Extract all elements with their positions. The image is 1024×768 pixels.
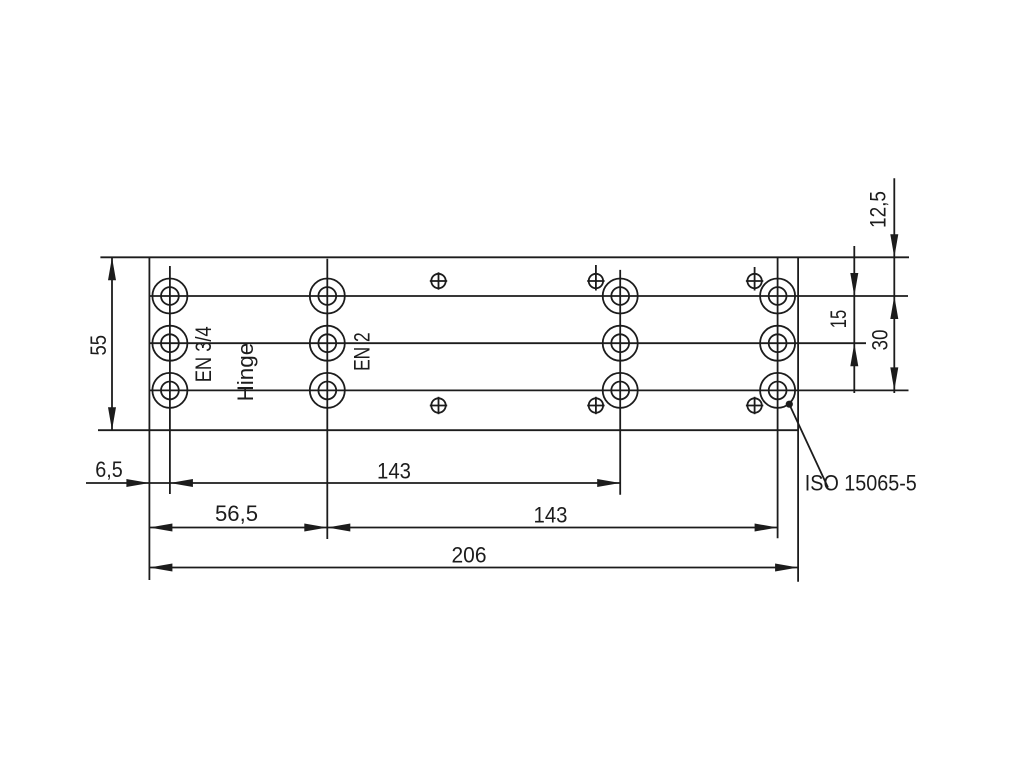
arrow 55 top xyxy=(108,257,116,280)
svg-text:EN 2: EN 2 xyxy=(350,332,375,371)
hole col1 row2 xyxy=(152,326,187,361)
arrow 206 left xyxy=(149,564,172,572)
row 3 centerline xyxy=(149,389,908,391)
leader dot xyxy=(786,401,793,408)
arrow 56,5 right xyxy=(304,524,327,532)
svg-text:30: 30 xyxy=(868,330,893,351)
arrow 30 bottom xyxy=(890,367,898,390)
dimension line 12,5 and 30 xyxy=(893,178,895,393)
svg-text:143: 143 xyxy=(377,459,411,484)
row 2 centerline xyxy=(149,342,866,344)
arrow 6,5 left xyxy=(126,479,149,487)
hole col4 row1 xyxy=(760,279,795,314)
small hole bottom 3 xyxy=(746,397,763,414)
svg-text:6,5: 6,5 xyxy=(95,457,123,482)
row 1 centerline xyxy=(149,295,908,297)
dimension line 6,5 and 143 xyxy=(86,482,620,484)
small hole top 1 xyxy=(430,272,447,289)
hole col4 row2 xyxy=(760,326,795,361)
arrow 55 bottom xyxy=(108,407,116,430)
hole col3 row2 xyxy=(603,326,638,361)
hole col2 row2 xyxy=(310,326,345,361)
arrow 206 right xyxy=(775,564,798,572)
svg-text:ISO 15065-5: ISO 15065-5 xyxy=(805,470,917,495)
hole col2 row3 xyxy=(310,373,345,408)
small hole top 3 xyxy=(746,267,763,291)
hole col2 row1 xyxy=(310,279,345,314)
arrow 143a left xyxy=(170,479,193,487)
arrow 15 top xyxy=(850,273,858,296)
hole col1 row3 xyxy=(152,373,187,408)
dimension line 15 xyxy=(853,246,855,393)
dimension line 206 xyxy=(149,567,798,569)
svg-text:15: 15 xyxy=(826,310,851,329)
plate right edge xyxy=(797,257,799,581)
column 4 centerline xyxy=(777,257,779,538)
dimension line 55 xyxy=(111,257,113,430)
arrow 56,5 left xyxy=(149,524,172,532)
small hole bottom 1 xyxy=(430,397,447,414)
svg-text:56,5: 56,5 xyxy=(215,501,258,526)
leader line ISO xyxy=(789,404,828,487)
hole col3 row3 xyxy=(603,373,638,408)
svg-text:143: 143 xyxy=(534,503,568,528)
arrow 143a right xyxy=(597,479,620,487)
small hole top 2 xyxy=(587,265,604,291)
plate left edge xyxy=(148,257,150,580)
column 1 centerline xyxy=(169,266,171,494)
column 3 centerline xyxy=(619,270,621,495)
arrow 15 bottom xyxy=(850,343,858,366)
small hole bottom 2 xyxy=(587,397,604,414)
svg-text:55: 55 xyxy=(86,335,111,356)
hole col1 row1 xyxy=(152,279,187,314)
svg-text:Hinge: Hinge xyxy=(233,343,258,402)
hole col4 row3 xyxy=(760,373,795,408)
svg-text:12,5: 12,5 xyxy=(866,191,891,228)
svg-text:206: 206 xyxy=(452,543,487,568)
arrow 12,5 bottom xyxy=(890,234,898,257)
svg-text:EN 3/4: EN 3/4 xyxy=(191,326,216,382)
dimension line 56,5 and 143 xyxy=(149,527,777,529)
plate bottom edge xyxy=(98,429,798,431)
plate top edge xyxy=(100,256,909,258)
hole col3 row1 xyxy=(603,279,638,314)
column 2 centerline xyxy=(326,259,328,539)
arrow 143b left xyxy=(327,524,350,532)
arrow 143b right xyxy=(755,524,778,532)
arrow 30 top xyxy=(890,296,898,319)
